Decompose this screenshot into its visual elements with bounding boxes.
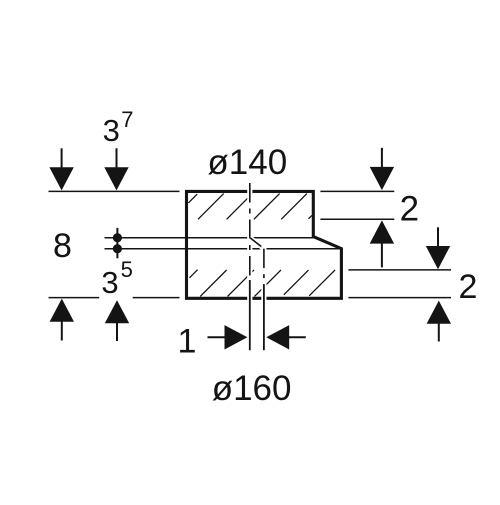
dim 8 arrow up outer stem <box>61 321 63 341</box>
dim 2 lower-right arrow down head <box>426 246 450 269</box>
extension line lower-right top <box>348 269 451 271</box>
svg-text:ø140: ø140 <box>207 143 287 182</box>
dim 2 upper-right arrow down head <box>370 167 394 190</box>
dimension dot lower <box>113 244 122 253</box>
dim 8 arrow down outer head <box>49 167 73 190</box>
centerline V1 white casing <box>247 183 252 350</box>
part outline (reducer section) <box>187 191 342 298</box>
dim 2 lower-right arrow up stem <box>438 323 440 342</box>
step line upper (y=237.7) <box>105 237 314 239</box>
svg-text:2: 2 <box>400 190 419 229</box>
svg-text:3: 3 <box>101 265 118 300</box>
dim 1 arrow left-pointing head <box>266 325 289 349</box>
svg-text:3: 3 <box>103 113 120 148</box>
dimension 0.8 dot stem <box>116 228 118 258</box>
hatching lower zone <box>190 270 336 297</box>
dim 2 upper-right arrow down stem <box>381 148 383 168</box>
extension line bottom-left segment b <box>133 297 180 299</box>
extension line lower-right bottom <box>348 297 451 299</box>
svg-text:7: 7 <box>121 107 133 132</box>
dim 1 leader left <box>208 336 230 338</box>
dim 2 lower-right arrow down stem <box>437 227 439 247</box>
centerline V2 (axis d160) dash-dot part <box>263 249 265 285</box>
svg-text:2: 2 <box>459 268 478 306</box>
centerline V1 (axis d140) dash-dot part <box>249 183 251 276</box>
hatching upper zone <box>188 194 312 220</box>
dim 3.5 arrow up head <box>105 300 129 323</box>
svg-text:8: 8 <box>53 227 72 265</box>
centerline V2 white casing <box>261 246 266 350</box>
extension line upper-right top <box>320 190 394 192</box>
centerline V2 solid lower part <box>263 284 265 350</box>
svg-text:5: 5 <box>121 257 133 282</box>
dim 3.7 arrow down head <box>104 167 128 190</box>
dim 1 leader right <box>286 336 306 338</box>
dim 8 arrow down outer stem <box>61 148 63 168</box>
centerline jog <box>250 238 264 249</box>
dim 2 upper-right arrow up head <box>370 220 394 243</box>
dim 8 arrow up outer head <box>50 299 74 322</box>
dim 3.5 arrow up stem <box>116 322 118 341</box>
extension line upper-right bottom (socket depth) <box>320 218 394 220</box>
dim 2 upper-right arrow up stem <box>381 243 383 267</box>
dim 3.7 arrow down stem <box>116 148 118 168</box>
centerline V1 solid lower part <box>249 280 251 350</box>
centerline jog casing <box>250 238 264 249</box>
svg-text:1: 1 <box>178 322 197 360</box>
dim 2 lower-right arrow up head <box>427 301 451 324</box>
step line lower (y=248.7) <box>105 248 342 250</box>
extension line top-left <box>49 190 180 192</box>
extension line bottom-left segment a <box>49 297 100 299</box>
dimension dot upper <box>113 233 122 242</box>
dim 1 arrow right-pointing head <box>225 325 248 349</box>
svg-text:ø160: ø160 <box>212 369 292 408</box>
